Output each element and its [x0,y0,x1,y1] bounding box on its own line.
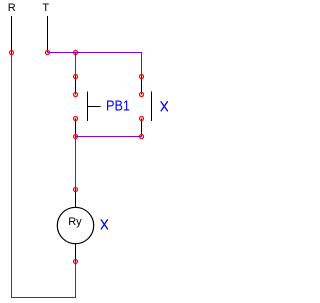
contact X bar [151,92,153,121]
pushbutton PB1 upper lead [75,77,77,95]
node X wire terminal top [140,75,144,79]
svg-text:R: R [8,2,16,14]
node PB1 wire terminal top [74,75,78,79]
wire top bus from T node right then down to X branch [48,53,142,77]
contact X upper lead [141,77,143,95]
T supply lead (black) [47,16,49,53]
pushbutton PB1 lower lead [75,119,77,137]
node PB1 contact bottom [74,117,78,121]
coil upper lead [75,190,77,208]
node X contact top [140,93,144,97]
node junction on top bus [74,51,78,55]
node PB1 contact top [74,93,78,97]
node T terminal [46,51,50,55]
R supply lead (black) [11,16,13,53]
coil lower lead [75,244,77,262]
wire left rail from R node along bottom to coil [12,53,76,298]
relay coil Ry body [57,207,93,243]
node coil wire terminal top [74,188,78,192]
node PB1 wire terminal bottom [74,135,78,139]
svg-text:T: T [42,2,49,14]
node R terminal [10,51,14,55]
wire from junction down to coil [75,137,77,190]
label X (contact) [161,102,168,111]
pushbutton PB1 actuator bar [87,92,89,121]
wire bottom bus between branches [76,136,142,138]
svg-text:Ry: Ry [68,216,82,228]
label X (coil) [101,220,108,229]
node X wire terminal bottom [140,135,144,139]
node X contact bottom [140,117,144,121]
contact X lower lead [141,119,143,137]
pushbutton PB1 actuator tick [87,106,101,108]
svg-text:PB1: PB1 [106,98,130,114]
node coil wire terminal bottom [74,260,78,264]
wire junction drop to PB1 branch [75,53,77,77]
